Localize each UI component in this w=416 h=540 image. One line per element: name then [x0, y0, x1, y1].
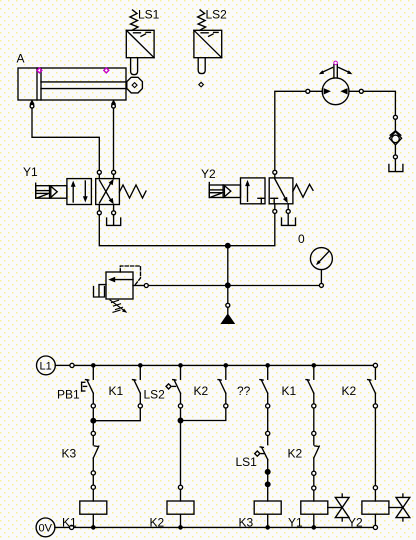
svg-text:PB1: PB1	[57, 388, 80, 402]
svg-text:Y2: Y2	[201, 167, 216, 181]
cylinder port right (arrow + node)	[111, 99, 116, 108]
svg-text:K2: K2	[150, 516, 165, 530]
svg-text:LS2: LS2	[144, 388, 166, 402]
valve Y1 port nodes	[97, 170, 115, 215]
contact LS1	[255, 447, 268, 460]
marker diamond magenta left	[37, 68, 42, 73]
svg-text:A: A	[17, 52, 25, 66]
rung 1 lower wires + nodes	[91, 458, 95, 501]
wire coil K3 to rail	[267, 514, 269, 527]
top rail junctions	[91, 363, 316, 368]
valve Y2 port nodes	[273, 170, 290, 213]
svg-text:K3: K3	[62, 447, 77, 461]
svg-text:Y2: Y2	[348, 516, 363, 530]
wire to K3 contact	[92, 436, 94, 445]
rung 6 lower wires + nodes	[312, 458, 316, 501]
LS2 plunger diamond marker	[199, 82, 204, 87]
node above K3 contact	[91, 431, 95, 435]
cylinder rod end roller	[127, 77, 143, 93]
node on check valve column	[393, 115, 397, 119]
valve Y1 left position box (parallel arrows)	[67, 179, 92, 205]
bottom rail	[74, 526, 373, 528]
wire coil K2 to rail	[180, 514, 182, 527]
svg-text:K3: K3	[239, 516, 254, 530]
coil K1	[80, 501, 107, 514]
junction on pressure line	[226, 243, 231, 248]
wire junction down to relief line	[227, 246, 229, 286]
wire motor left to valve Y2 top port	[275, 91, 322, 170]
rung 7 wire top	[374, 368, 376, 380]
wire node to check valve	[394, 119, 396, 131]
cylinder port left (arrow + node)	[29, 99, 34, 108]
wire node to source	[227, 307, 229, 313]
rung 2 (K1 branch) wire top	[139, 365, 141, 379]
svg-text:K2: K2	[194, 384, 209, 398]
terminal 0V	[36, 518, 74, 537]
node on motor left wire	[306, 89, 310, 93]
rung 5 wire top	[267, 365, 269, 379]
valve Y1 right position box (crossed arrows)	[96, 179, 120, 205]
cylinder A body	[18, 68, 126, 100]
valve Y2 right position box (diagonal arrow, blocked T)	[269, 178, 293, 204]
wire cylinder left port to valve Y1 port A	[32, 108, 99, 170]
wire coil Y2 to rail	[374, 514, 376, 525]
bottom rail end node	[373, 525, 377, 529]
valve Y2 tank	[282, 214, 296, 226]
rung 3 wire + node	[178, 393, 182, 485]
svg-text:0: 0	[298, 232, 305, 246]
wire junction to source node	[227, 285, 229, 303]
limit switch LS2	[194, 10, 222, 74]
solenoid valve symbol Y2	[389, 494, 410, 521]
contact K2 (rung 7)	[368, 380, 376, 394]
svg-text:LS1: LS1	[138, 8, 160, 22]
coil Y2	[362, 501, 389, 514]
wire into right tank	[394, 159, 396, 171]
contact K1 (rung 6)	[306, 380, 314, 394]
valve Y2 left position box (up arrow, blocked T)	[241, 178, 266, 204]
motor shaft marker magenta	[334, 61, 338, 65]
marker diamond magenta right	[104, 68, 109, 73]
junction rung3 / K2 branch	[178, 418, 183, 423]
svg-text:??: ??	[237, 384, 251, 398]
relief valve spring with arrow	[110, 300, 127, 313]
svg-text:Y1: Y1	[288, 516, 303, 530]
gauge node	[319, 283, 323, 287]
wire pressure line Y1 to Y2	[99, 214, 274, 246]
rung 6 wire top	[313, 365, 315, 379]
valve Y1 solenoid	[36, 183, 67, 198]
wire relief line to gauge	[148, 285, 319, 287]
junction rung1 / K1 branch	[91, 418, 96, 423]
contact K1	[133, 380, 141, 394]
contact LS2	[166, 380, 181, 394]
relief valve pilot line (dashed)	[120, 266, 140, 285]
rung 5 lower wires + junction dots	[265, 460, 270, 502]
rung 4 (K2 branch) wire top	[225, 365, 227, 379]
rung 5 wires + nodes	[266, 393, 270, 445]
valve Y1 tank	[107, 215, 121, 226]
wire check valve to tank node	[394, 145, 396, 155]
contact ??	[260, 380, 268, 394]
valve Y1 spring	[119, 185, 146, 198]
valve Y2 solenoid	[209, 183, 240, 198]
svg-text:L1: L1	[40, 361, 52, 373]
svg-text:LS1: LS1	[236, 455, 258, 469]
wire cylinder right port to valve Y1 port B	[113, 108, 115, 170]
svg-text:K1: K1	[282, 384, 297, 398]
rung 6 wires + nodes	[312, 393, 316, 445]
top rail end node	[373, 363, 377, 367]
svg-text:K2: K2	[342, 384, 357, 398]
svg-text:0V: 0V	[39, 523, 53, 535]
rung 1 wire top	[92, 365, 94, 379]
wire relief to line	[133, 285, 144, 287]
limit switch LS1	[126, 10, 154, 75]
wire motor right to check valve column	[349, 91, 395, 115]
node on motor right wire	[359, 89, 363, 93]
rung 3 wire top	[180, 365, 182, 379]
relief valve tank	[94, 285, 107, 297]
rung 2 wire + node + branch to rung1	[95, 393, 142, 421]
pushbutton PB1 contact	[82, 380, 94, 394]
bottom rail junctions	[91, 525, 316, 530]
motor (bidirectional)	[319, 65, 353, 105]
junction on relief line	[226, 283, 231, 288]
tank right	[389, 164, 403, 171]
svg-text:K2: K2	[288, 447, 303, 461]
terminal L1	[37, 356, 75, 375]
node above right tank	[393, 155, 397, 159]
contact K2 (rung 6)	[314, 446, 320, 458]
solenoid valve symbol Y1	[328, 494, 349, 521]
svg-text:K1: K1	[62, 516, 77, 530]
valve Y2 spring	[293, 184, 313, 197]
pressure source triangle	[220, 313, 235, 324]
check valve (ball in seat)	[389, 131, 401, 145]
contact K3	[93, 446, 99, 458]
relief valve outlet node	[144, 284, 148, 288]
node above coil K2	[178, 485, 182, 489]
svg-text:K1: K1	[109, 384, 124, 398]
top rail	[74, 364, 373, 366]
wire node to coil K2	[180, 490, 182, 502]
svg-text:Y1: Y1	[23, 165, 38, 179]
coil Y1	[301, 501, 328, 514]
rung 4 wire + node + branch to rung3	[183, 393, 228, 420]
pressure gauge	[310, 248, 332, 284]
coil K2	[167, 501, 194, 514]
contact K2	[218, 380, 226, 394]
svg-text:LS2: LS2	[206, 8, 228, 22]
node above source	[226, 303, 230, 307]
wire coil Y1 to rail	[313, 514, 315, 527]
rung 7 wires + nodes	[373, 393, 377, 501]
relief valve body	[106, 272, 133, 299]
rung 1 wire + node	[91, 393, 95, 431]
wire coil K1 to rail	[92, 514, 94, 527]
coil K3	[254, 501, 281, 514]
